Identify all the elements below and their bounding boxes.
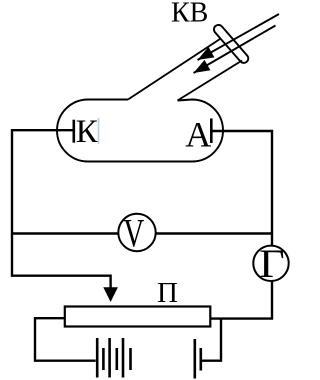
potentiometer wiper arrowhead	[103, 287, 118, 302]
galvanometer Г	[253, 246, 288, 281]
text cursor artifact	[98, 118, 100, 144]
svg-text:V: V	[123, 211, 144, 256]
voltmeter V	[118, 214, 155, 251]
battery short plate 3	[129, 348, 132, 370]
cathode plate	[73, 120, 76, 143]
light ray 2 arrowhead	[194, 60, 211, 73]
battery long plate 1	[96, 338, 99, 378]
battery short plate 4 (right group)	[200, 348, 203, 371]
light ray 1	[198, 14, 280, 60]
anode plate	[210, 118, 213, 143]
svg-text:Г: Г	[259, 241, 285, 286]
svg-text:А: А	[185, 115, 211, 155]
battery short plate 2	[116, 348, 119, 370]
svg-text:П: П	[157, 277, 178, 309]
light ray 1 arrowhead	[198, 47, 215, 60]
svg-text:КВ: КВ	[171, 0, 208, 29]
battery short plate 1	[102, 348, 105, 370]
svg-text:К: К	[76, 114, 99, 150]
battery long plate 3	[122, 338, 125, 378]
wire anode to right rail down to potentiometer	[210, 131, 273, 319]
battery long plate 2	[108, 338, 111, 378]
wire potentiometer left end to battery	[35, 318, 96, 361]
phototube horn wall left	[128, 39, 220, 100]
wire cathode to left rail	[12, 130, 111, 289]
phototube envelope VL1	[57, 100, 223, 162]
battery long plate 4 (right group)	[194, 339, 197, 379]
light ray 2	[194, 26, 276, 74]
quartz window W1	[212, 23, 250, 65]
phototube horn wall right	[178, 61, 243, 101]
potentiometer П body	[65, 307, 211, 327]
wire voltmeter branch	[12, 232, 272, 234]
wire battery positive to right rail	[202, 319, 221, 361]
